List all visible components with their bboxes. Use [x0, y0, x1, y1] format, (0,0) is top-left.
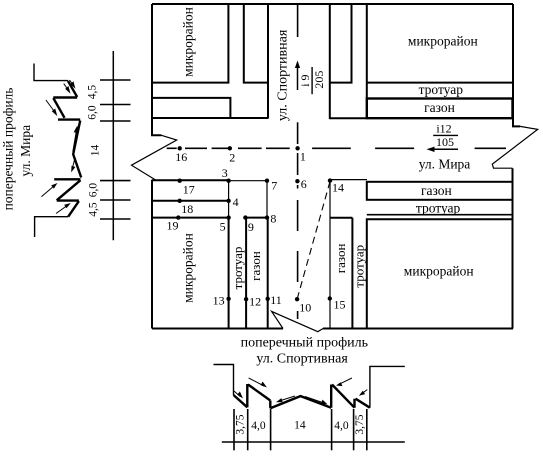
NE block bottom / sidewalk strip top [367, 82, 513, 84]
bottom profile road crown [270, 396, 331, 408]
bottom profile east small curb [353, 399, 355, 408]
Mira north edge west [152, 117, 268, 119]
left profile dimension line [112, 51, 114, 240]
construction line 14 to lawn [330, 179, 367, 181]
svg-text:3: 3 [222, 166, 228, 180]
left break zigzag [132, 135, 177, 179]
left profile road crown [73, 121, 81, 178]
bottom profile ticks [234, 409, 367, 450]
SE lawn rect [367, 182, 513, 200]
svg-text:тротуар: тротуар [351, 245, 366, 288]
SW block top [152, 217, 229, 219]
SE lawn strip cap [330, 217, 352, 219]
point 4 dot [226, 199, 230, 203]
left profile south sidewalk slope [68, 201, 79, 217]
svg-text:1: 1 [300, 150, 306, 164]
bottom profile tick 1 [233, 409, 235, 450]
point 3 dot [226, 179, 230, 183]
point 16 dot [178, 146, 182, 150]
construction line 14-15 down [329, 181, 331, 329]
svg-text:7: 7 [271, 179, 277, 193]
left profile south lawn slope arrow [42, 186, 55, 197]
svg-text:микрорайон: микрорайон [181, 233, 196, 303]
svg-text:газон: газон [424, 100, 455, 115]
point 18 dot [178, 199, 182, 203]
svg-text:4,5: 4,5 [87, 85, 99, 100]
bottom profile east lawn slope [332, 385, 355, 408]
NE block west edge [366, 4, 368, 83]
svg-text:18: 18 [181, 202, 193, 216]
NE block west edge lower [366, 83, 368, 99]
point 17 dot [178, 179, 182, 183]
svg-text:поперечный профиль: поперечный профиль [241, 336, 368, 351]
left profile north sidewalk slope [68, 81, 77, 97]
left profile north ground edge [34, 64, 68, 81]
svg-text:14: 14 [294, 420, 306, 432]
svg-text:тротуар: тротуар [230, 247, 245, 290]
bottom profile dimension line [222, 441, 405, 443]
left profile tick 1 [100, 79, 131, 81]
Mira north edge east [330, 117, 367, 119]
left profile tick 2 [100, 104, 131, 106]
svg-text:4,5: 4,5 [87, 202, 99, 217]
bottom profile west curb [246, 384, 248, 407]
svg-text:поперечный профиль: поперечный профиль [1, 88, 16, 211]
right break zigzag [492, 126, 537, 168]
Sportivnaya centerline dashed [297, 5, 299, 319]
NW microdistrict block [152, 4, 228, 83]
svg-text:газон: газон [248, 251, 263, 281]
Mira south edge west thick [152, 179, 229, 181]
left profile road north crossfall arrow [73, 130, 77, 153]
bottom profile road west crossfall arrow [280, 396, 296, 401]
point 9 dot [243, 215, 247, 219]
point 2 dot [228, 146, 232, 150]
SW sidewalk west edge [228, 218, 230, 329]
plan right border lower [512, 168, 514, 328]
svg-text:6: 6 [301, 177, 307, 191]
NW sidewalk strip bottom [152, 98, 230, 118]
construction line 3-4-5 [228, 181, 230, 218]
svg-text:газон: газон [421, 183, 452, 198]
svg-text:16: 16 [175, 150, 187, 164]
point 6 dot [295, 179, 299, 183]
bottom profile east curb [330, 385, 332, 408]
svg-text:тротуар: тротуар [419, 82, 464, 97]
svg-text:11: 11 [270, 293, 282, 307]
Mira centerline dashed [167, 147, 506, 149]
bottom profile west gutter drop [269, 401, 271, 409]
bottom profile tick 6 [366, 409, 368, 450]
left profile tick 5 [100, 199, 131, 201]
svg-text:105: 105 [436, 135, 454, 149]
left profile ticks [100, 80, 131, 219]
SE block [367, 219, 513, 328]
left profile north gutter shelf [58, 118, 80, 120]
left profile south curb shelf [57, 199, 79, 201]
svg-text:микрорайон: микрорайон [181, 7, 196, 77]
svg-text:17: 17 [183, 183, 195, 197]
svg-text:ул. Мира: ул. Мира [18, 125, 33, 177]
svg-text:2: 2 [229, 151, 235, 165]
svg-text:4: 4 [233, 195, 239, 209]
plan bottom border right of Sportivnaya break [323, 328, 513, 330]
left profile tick 3 [100, 120, 131, 122]
left profile sidewalk slope arrow b [70, 80, 75, 86]
svg-text:ул. Спортивная: ул. Спортивная [256, 352, 348, 367]
bottom profile west sidewalk slope arrow [234, 391, 241, 397]
Sportivnaya west edge north [267, 4, 269, 119]
svg-text:тротуар: тротуар [416, 201, 461, 216]
left profile south sidewalk slope arrow [56, 205, 68, 213]
svg-text:3,75: 3,75 [354, 414, 366, 434]
point 8 dot [265, 215, 269, 219]
svg-text:ул. Мира: ул. Мира [419, 157, 471, 172]
i9 gradient arrow [295, 61, 300, 91]
svg-text:микрорайон: микрорайон [408, 34, 478, 49]
i9 fraction bar [311, 67, 313, 94]
bottom profile east sidewalk slope [356, 399, 370, 408]
diagonal dashed line 14-10 [297, 182, 330, 299]
bottom profile tick 3 [270, 409, 272, 450]
cap 9-8 [245, 217, 267, 219]
NE lawn rect [367, 99, 513, 119]
left profile south lawn slope [57, 180, 81, 200]
bottom break zigzag pointer [272, 311, 324, 331]
i12 gradient arrow [427, 147, 459, 152]
svg-text:14: 14 [89, 145, 101, 157]
left profile tick 6 [100, 218, 131, 220]
svg-text:газон: газон [333, 244, 348, 274]
plan top border [152, 3, 513, 5]
svg-text:4,0: 4,0 [334, 420, 349, 432]
plan left border lower [151, 180, 153, 329]
bottom profile east lawn slope arrow [339, 378, 352, 384]
point 1 dot [295, 146, 299, 150]
svg-text:14: 14 [332, 181, 344, 195]
bottom profile tick 4 [331, 409, 333, 450]
left profile lawn slope arrow [46, 100, 56, 113]
SW lawn strip line [152, 200, 229, 202]
SE lawn strip east edge [351, 218, 353, 329]
bottom profile road east crossfall arrow [305, 397, 324, 404]
svg-text:12: 12 [249, 295, 261, 309]
bottom profile west ground edge [214, 365, 234, 396]
NW driveway corridor west line [244, 4, 268, 83]
point 11 dot [266, 297, 270, 301]
svg-text:ул. Спортивная: ул. Спортивная [276, 29, 291, 121]
i12 fraction bar [433, 134, 458, 136]
svg-text:10: 10 [299, 300, 311, 314]
svg-text:6,0: 6,0 [87, 183, 99, 198]
left profile north curb shelf [53, 96, 77, 98]
svg-text:i12: i12 [436, 122, 451, 136]
svg-text:микрорайон: микрорайон [404, 264, 474, 279]
svg-text:13: 13 [213, 294, 225, 308]
point 15 dot [328, 296, 332, 300]
point 10 dot [295, 297, 299, 301]
point 14 dot [328, 178, 332, 182]
point 7 dot [265, 179, 269, 183]
point 12 dot [244, 297, 248, 301]
bottom profile east ground edge [370, 366, 405, 407]
bottom profile tick 5 [353, 409, 355, 450]
construction line 7-8 [266, 181, 268, 218]
left profile south ground edge [35, 217, 69, 237]
plan left border upper [152, 4, 161, 135]
Sportivnaya east edge north [329, 4, 331, 119]
svg-text:15: 15 [334, 297, 346, 311]
point 13 dot [226, 297, 230, 301]
SE sidewalk bottom [367, 214, 513, 216]
left profile road south crossfall arrow [72, 160, 74, 169]
plan right border upper [513, 4, 520, 126]
svg-text:4,0: 4,0 [251, 420, 266, 432]
point 5 dot [226, 215, 230, 219]
svg-text:8: 8 [270, 212, 276, 226]
svg-text:9: 9 [248, 220, 254, 234]
bottom profile west lawn slope [248, 385, 270, 401]
NE lawn strip vertical [330, 4, 352, 83]
SW lawn east edge [267, 218, 269, 329]
left profile north lawn slope [53, 98, 64, 118]
point 19 dot [176, 215, 180, 219]
bottom profile west sidewalk slope [234, 395, 248, 407]
svg-text:19: 19 [167, 218, 179, 232]
svg-text:3,75: 3,75 [234, 414, 246, 434]
svg-text:i 9: i 9 [298, 74, 312, 86]
svg-text:6,0: 6,0 [87, 105, 99, 120]
svg-text:205: 205 [312, 71, 326, 89]
bottom profile west lawn slope arrow [249, 378, 264, 386]
construction line 3-7 [229, 180, 267, 182]
left profile tick 4 [100, 180, 131, 182]
bottom profile east sidewalk slope arrow [362, 390, 368, 394]
left profile south gutter shelf [54, 178, 80, 180]
left profile sidewalk slope arrow a [64, 84, 69, 91]
SW lawn west edge [245, 218, 247, 329]
svg-text:5: 5 [220, 220, 226, 234]
bottom profile tick 2 [247, 409, 249, 450]
plan bottom border left of Sportivnaya break [152, 328, 283, 330]
